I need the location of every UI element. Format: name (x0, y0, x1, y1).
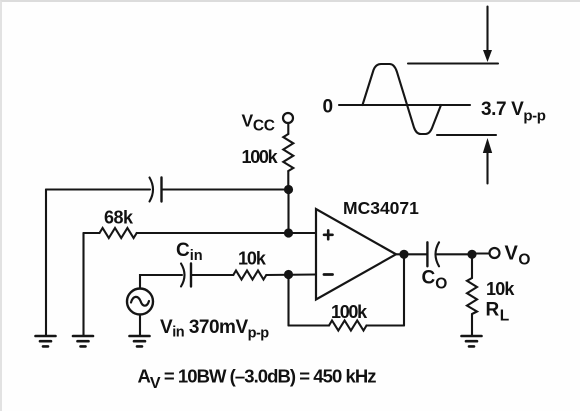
wire: 68k branch to resistor (84, 232, 100, 234)
wire: top feedback loop horizontal (left ground cap to VCC node) (46, 188, 150, 190)
capacitor Cin straight plate (190, 264, 192, 287)
capacitor C1 straight plate (160, 178, 162, 202)
waveform: top peak level line (408, 62, 498, 64)
capacitor Cin curved plate (181, 264, 185, 287)
waveform: down arrow shaft (486, 7, 488, 51)
wire: RL to ground (471, 314, 473, 336)
waveform: bottom peak level line (437, 134, 496, 136)
wire: feedback bottom right segment (367, 324, 405, 326)
svg-text:MC34071: MC34071 (343, 198, 419, 218)
capacitor CO straight plate (426, 242, 428, 266)
wire: 10k to inverting node (266, 273, 316, 276)
wire: Cin to 10k (191, 274, 233, 276)
wire: feedback vertical to output (403, 254, 405, 325)
ground (36, 336, 56, 346)
wire: CO to output node (437, 253, 472, 255)
sine symbol inside source (131, 297, 149, 306)
waveform: zero axis line (339, 104, 470, 106)
resistor 100k feedback (329, 321, 367, 331)
wire: feedback vertical from inverting node (287, 275, 289, 326)
wire: source down to ground (139, 315, 141, 337)
node: inverting input dot (284, 270, 293, 279)
svg-text:100k: 100k (242, 147, 279, 167)
svg-text:10k: 10k (238, 249, 267, 269)
ground (130, 336, 150, 346)
op-amp U1 triangle (316, 209, 396, 300)
wire: op-amp output to CO (396, 253, 427, 255)
svg-text:Cin: Cin (176, 240, 203, 264)
waveform: up arrow shaft (486, 151, 488, 184)
wire: source up and right to Cin (140, 275, 182, 289)
op-amp plus sign (324, 230, 333, 239)
svg-text:10k: 10k (486, 279, 515, 299)
waveform: sine cycle (363, 64, 442, 134)
resistor RL vertical (467, 278, 477, 314)
svg-text:Vin 370mVp-p: Vin 370mVp-p (160, 317, 269, 342)
capacitor CO curved plate (436, 242, 440, 266)
ground (462, 336, 482, 346)
terminal VO open circle (490, 248, 500, 258)
wire: resistor to node (287, 171, 289, 190)
resistor 68k (100, 228, 137, 238)
wire: left vertical down to ground (45, 190, 47, 337)
svg-text:CO: CO (422, 268, 448, 293)
svg-text:68k: 68k (104, 208, 134, 228)
svg-text:VCC: VCC (242, 111, 275, 135)
node: noninverting input dot (284, 228, 293, 237)
terminal VCC open circle (283, 113, 293, 123)
node: VCC-resistor junction dot (284, 185, 293, 194)
sine source circle (127, 289, 153, 315)
svg-text:RL: RL (486, 300, 510, 325)
waveform: up arrowhead (483, 138, 492, 153)
wire: 68k to noninverting node (137, 232, 316, 234)
ground (73, 336, 93, 346)
wire: node down to noninverting input (287, 190, 289, 234)
wire: node to VO terminal (472, 252, 490, 254)
node: output dot (399, 250, 408, 259)
op-amp minus sign (324, 273, 333, 276)
svg-text:3.7 Vp-p: 3.7 Vp-p (481, 99, 546, 125)
wire: node down to RL (471, 254, 473, 278)
wire: feedback bottom left segment (289, 324, 330, 326)
svg-text:0: 0 (323, 97, 334, 118)
svg-text:100k: 100k (331, 302, 368, 322)
node: output junction dot (467, 250, 476, 259)
resistor 10k input (233, 271, 266, 280)
wire: VCC circle to resistor (287, 123, 289, 134)
svg-text:AV = 10BW (–3.0dB) = 450 kHz: AV = 10BW (–3.0dB) = 450 kHz (138, 366, 377, 393)
wire: 68k branch vertical down to ground (82, 233, 84, 336)
resistor 100k vertical (283, 134, 293, 171)
waveform: down arrowhead (483, 50, 492, 62)
svg-text:VO: VO (505, 243, 531, 269)
capacitor C1 curved plate (150, 178, 154, 202)
